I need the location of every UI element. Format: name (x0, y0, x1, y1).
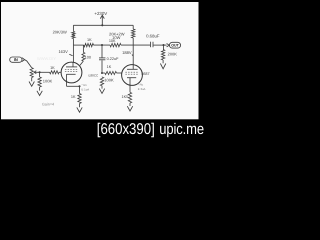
svg-text:100K: 100K (43, 79, 53, 84)
svg-text:10K: 10K (109, 39, 116, 43)
svg-text:1K5: 1K5 (122, 95, 129, 99)
svg-text:0.22uF: 0.22uF (107, 57, 120, 61)
svg-text:IN: IN (14, 57, 18, 62)
svg-text:1K: 1K (87, 38, 92, 42)
svg-text:1K: 1K (107, 65, 112, 69)
svg-text:5687: 5687 (141, 72, 149, 76)
svg-text:1K: 1K (50, 66, 55, 70)
svg-text:100K: 100K (104, 78, 114, 83)
svg-text:E88CC: E88CC (89, 73, 100, 77)
svg-text:1K: 1K (71, 95, 76, 99)
svg-text:Gain=4: Gain=4 (42, 103, 54, 107)
svg-text:upic.me: upic.me (159, 120, 204, 138)
svg-text:20K/3W: 20K/3W (53, 30, 67, 35)
svg-text:E 1uA: E 1uA (82, 87, 90, 91)
svg-text:OUT: OUT (171, 44, 179, 48)
svg-text:+230V: +230V (94, 11, 107, 16)
svg-text:0.68uF: 0.68uF (146, 34, 160, 39)
svg-text:188V: 188V (122, 50, 132, 55)
svg-text:WWW.DIY: WWW.DIY (37, 56, 56, 61)
svg-text:[660x390]: [660x390] (97, 120, 155, 138)
svg-text:163V: 163V (58, 49, 68, 54)
svg-text:E 3uA: E 3uA (138, 87, 146, 91)
svg-text:100: 100 (85, 56, 91, 60)
svg-text:200K: 200K (168, 51, 178, 56)
